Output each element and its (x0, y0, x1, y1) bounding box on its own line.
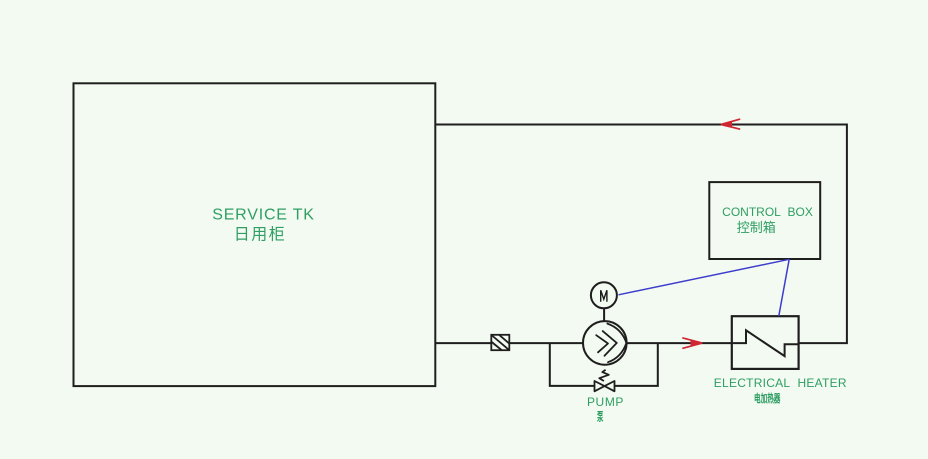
wire bypass loop (550, 343, 595, 386)
svg-text:电加热器: 电加热器 (754, 391, 781, 404)
label M (601, 290, 607, 302)
svg-text:SERVICE TK: SERVICE TK (212, 207, 315, 224)
svg-text:CONTROL BOX: CONTROL BOX (722, 205, 813, 219)
wire motor stem (603, 308, 605, 321)
wire strainer to pump (509, 342, 583, 344)
electrical heater box (732, 316, 799, 369)
wire suction pipe tank to strainer (435, 342, 491, 344)
svg-text:PUMP: PUMP (587, 395, 624, 409)
tank SERVICE TK (74, 83, 436, 386)
flow arrow (left) on top pipe (721, 119, 740, 129)
signal wire control box to heater (779, 259, 789, 316)
control box (709, 182, 820, 259)
pump P circle (583, 321, 627, 365)
heater element zigzag (732, 330, 799, 356)
motor M circle (591, 282, 617, 308)
svg-text:控制箱: 控制箱 (737, 220, 776, 235)
relief valve (bypass) (595, 370, 615, 392)
svg-text:ELECTRICAL HEATER: ELECTRICAL HEATER (714, 376, 847, 390)
pump impeller chevrons (596, 324, 626, 363)
wire pump outlet to heater (627, 342, 732, 344)
flow arrow (right) before heater (682, 338, 702, 349)
signal wire control box to motor (619, 259, 790, 295)
svg-text:日用柜: 日用柜 (234, 225, 287, 243)
svg-text:泵: 泵 (596, 411, 603, 423)
wire top return pipe (435, 125, 847, 344)
strainer (filter) (491, 335, 509, 350)
